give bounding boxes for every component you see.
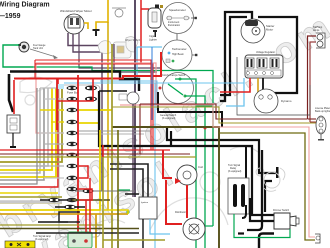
fan ext khaki <box>0 196 62 198</box>
connector feed a <box>40 87 64 89</box>
wire red U loop <box>57 79 93 101</box>
dimmer switch <box>273 209 299 229</box>
combo switch gauge <box>159 73 194 104</box>
wire black inner elbow <box>265 181 272 212</box>
wire black dimmer feed upper <box>250 198 274 221</box>
wire maroon tail 1 <box>308 36 317 119</box>
svg-text:Combo Lamps Switch: Combo Lamps Switch <box>162 74 186 77</box>
harness yellow v2 <box>0 88 56 177</box>
wire yellow wiper feed <box>84 23 88 29</box>
junction dot green <box>126 210 129 213</box>
wire green dist <box>203 225 213 227</box>
wire red hook 2 <box>79 189 92 200</box>
fuel tank gauge icon <box>18 42 58 59</box>
wire yellow inner vertical <box>107 22 109 210</box>
wire black stub x171 <box>170 131 172 146</box>
svg-text:Voltage Regulator: Voltage Regulator <box>256 51 275 54</box>
black ignition feed 2 <box>110 169 143 197</box>
fuse block left <box>7 115 20 148</box>
wire red hook 1 <box>79 166 88 178</box>
wire red coil arrow <box>163 150 172 178</box>
wire yellow bottom 1 <box>0 130 100 210</box>
courtesy light symbol <box>112 8 126 17</box>
svg-text:Lighter: Lighter <box>149 38 157 42</box>
harness gray v1 <box>0 88 40 173</box>
connector feed f <box>44 143 64 145</box>
svg-text:Speedometer: Speedometer <box>169 8 186 12</box>
bullet connectors column <box>67 86 98 203</box>
wire green bottom 1 <box>234 214 290 238</box>
wire khaki bottom v2 <box>117 130 119 248</box>
connector feed d <box>51 121 64 123</box>
tachometer gauge <box>162 40 197 70</box>
wire red coil to dist <box>186 185 188 218</box>
wire khaki vertical mid <box>111 44 113 248</box>
speedometer gauge <box>163 3 197 34</box>
wire red thin A <box>35 60 151 150</box>
wire black mid run 2 <box>158 92 222 127</box>
mid bundle maroon <box>0 153 190 155</box>
svg-text:Distributor: Distributor <box>175 211 186 214</box>
wire yellow bottom 3 <box>95 214 97 248</box>
wire yellow bottom 4 <box>104 210 128 214</box>
harness yellow v1 <box>0 88 52 170</box>
svg-text:Tachometer: Tachometer <box>172 47 187 51</box>
wiper motor M1 <box>60 9 92 34</box>
wire khaki bottom h <box>103 239 165 241</box>
wire purple switch elbow <box>114 44 157 72</box>
battery cable right <box>258 17 297 93</box>
svg-text:. Wiring Diagram: . Wiring Diagram <box>0 2 50 9</box>
wire black dash <box>238 232 244 234</box>
wire red flasher feed 1 <box>85 200 87 232</box>
wire purple main vertical <box>134 0 136 197</box>
junction dot red <box>204 127 207 130</box>
wire maroon lamp feed <box>308 118 317 120</box>
voltage regulator box <box>245 51 283 78</box>
olive stub y200 <box>72 199 110 201</box>
starter cable inner <box>220 17 247 95</box>
terminal bar right <box>276 167 279 178</box>
license backup lamp <box>315 107 330 141</box>
wire blue vertical <box>154 83 156 248</box>
svg-text:Wiper Switch: Wiper Switch <box>125 38 141 42</box>
wire cyan long run <box>64 82 244 84</box>
wire amber regulator <box>257 78 259 95</box>
gray stub y134 <box>79 133 144 135</box>
wire black regulator <box>262 78 264 90</box>
horn button <box>127 92 139 104</box>
wire green combo 2 <box>185 96 205 248</box>
turn signal relay box <box>228 164 249 214</box>
green dash pair <box>118 189 130 191</box>
harness gray v2 <box>0 88 44 180</box>
bottom right lamp <box>315 234 320 243</box>
wire maroon tail 2 <box>310 42 316 122</box>
black stub y200 <box>40 199 72 201</box>
connector feed c <box>40 109 64 111</box>
svg-text:Back-up lights: Back-up lights <box>315 110 330 113</box>
wire blue vertical 2 <box>151 47 153 120</box>
wire black small hook <box>242 205 246 218</box>
wire black relay feed <box>245 146 247 178</box>
ignition switch box <box>139 197 170 248</box>
svg-text:Motor: Motor <box>266 28 273 32</box>
cigar lighter <box>148 5 163 42</box>
ignition coil <box>177 165 203 185</box>
harness gray v4 <box>0 88 37 184</box>
connector feed i <box>44 177 64 179</box>
maroon x140 vertical <box>139 104 141 154</box>
wire black snake mid <box>99 91 274 215</box>
wiper switch ghost <box>98 37 138 58</box>
engine bay outline <box>237 57 310 115</box>
black U loop <box>59 212 80 222</box>
tail stop lamp <box>313 26 325 48</box>
black y233 <box>36 232 139 234</box>
wire black hook left <box>247 150 262 230</box>
svg-text:Windshield Wiper Motor: Windshield Wiper Motor <box>60 9 92 13</box>
wire green cross low <box>196 106 213 226</box>
dynamo <box>254 89 292 113</box>
wire green tach run <box>33 67 213 103</box>
black connector bottom-left <box>55 206 85 208</box>
starter motor <box>241 19 274 43</box>
wire purple wiper run 2 <box>73 34 102 191</box>
wire olive long <box>112 127 219 248</box>
connector feed h <box>40 165 64 167</box>
battery cable down <box>9 74 13 112</box>
harness khaki v <box>0 88 62 162</box>
cyan label chip <box>56 84 64 89</box>
wire yellow conn out 1 <box>79 109 112 111</box>
wire red flasher feed 2 <box>89 178 91 232</box>
wire green gauge <box>3 45 33 67</box>
wire black horn feed <box>99 90 127 92</box>
wire green combo 1 <box>175 79 196 248</box>
wire black bottom hook <box>259 234 274 248</box>
speedo cable link <box>176 34 178 42</box>
terminal cap <box>93 29 100 36</box>
svg-text:Ignition: Ignition <box>141 201 149 204</box>
black ignition feed 1 <box>110 164 148 197</box>
svg-text:lamps: lamps <box>313 29 320 32</box>
wire salmon lamp feed <box>310 121 316 123</box>
svg-text:(if equipped): (if equipped) <box>35 238 48 241</box>
wire yellow from top <box>96 0 108 29</box>
wire cyan pair low <box>100 81 157 110</box>
gray stub y131 <box>79 130 150 132</box>
gray stub <box>75 190 135 192</box>
mid bundle red <box>0 149 170 151</box>
black stub bottom-left <box>38 221 68 223</box>
wire khaki to lamps <box>112 107 316 123</box>
wire khaki bottom v1 <box>102 157 104 248</box>
wire yellow conn out 2 <box>79 122 100 124</box>
wire black mid run 3 <box>167 126 276 173</box>
ghost part sketch <box>256 168 285 191</box>
wire red thin B <box>35 64 153 150</box>
svg-text:Tank Unit: Tank Unit <box>33 47 43 50</box>
wire olive right frame <box>219 133 315 240</box>
wire salmon to lamps <box>156 105 315 237</box>
khaki y224 <box>0 224 103 226</box>
darkolive y228 <box>0 228 139 230</box>
svg-text:Dynamo: Dynamo <box>281 99 292 103</box>
svg-text:7—1959: 7—1959 <box>0 13 21 20</box>
wire red branch 2 <box>102 145 104 157</box>
flasher unit green <box>68 232 92 248</box>
wire cyan regulator <box>226 78 244 106</box>
wire yellow bottom 2 <box>0 213 128 215</box>
connector feed g <box>48 154 64 156</box>
harness gray v3 <box>0 88 48 166</box>
turn signal lamp label box <box>5 235 52 248</box>
svg-text:Cigar: Cigar <box>149 34 155 38</box>
distributor <box>175 211 205 240</box>
wire red coil drop <box>166 180 182 224</box>
wire purple wiper run 1 <box>68 33 137 46</box>
wire red main thick <box>14 52 161 79</box>
wire green combo diag <box>168 84 183 95</box>
wire red center v1 <box>56 78 58 130</box>
wire red battery <box>13 80 15 114</box>
svg-text:(if equipped): (if equipped) <box>228 170 241 173</box>
wire yellow bottom extra <box>0 202 62 204</box>
wire cyan to tach <box>137 46 162 48</box>
wire red center v2 <box>77 75 79 248</box>
svg-text:Dimmer Switch: Dimmer Switch <box>273 209 290 212</box>
black stub y194 <box>125 193 139 195</box>
harness red v <box>0 78 58 187</box>
wire red cigar feed <box>140 0 142 64</box>
wire black battery main <box>10 72 139 92</box>
fan ext gray band <box>0 200 62 203</box>
starter cable outer <box>220 12 252 101</box>
mid bundle khaki <box>0 156 196 158</box>
wire purple wiper run 3 <box>79 33 160 68</box>
svg-text:Coil: Coil <box>198 165 203 169</box>
svg-text:High Beam: High Beam <box>172 53 184 56</box>
connector feed e <box>40 132 64 134</box>
svg-text:Illumination: Illumination <box>168 24 181 27</box>
wire maroon to lamps <box>140 104 307 119</box>
connector feed b <box>44 98 64 100</box>
fan ext yellow <box>0 192 58 194</box>
fuse box outline <box>59 85 100 237</box>
wire salmon top <box>36 63 156 105</box>
wire red left post <box>34 60 36 78</box>
svg-text:(if equipped): (if equipped) <box>162 117 175 120</box>
ghost sketch steering <box>20 77 258 230</box>
wire red regulator <box>220 78 250 92</box>
wire purple horn drop <box>132 104 134 197</box>
